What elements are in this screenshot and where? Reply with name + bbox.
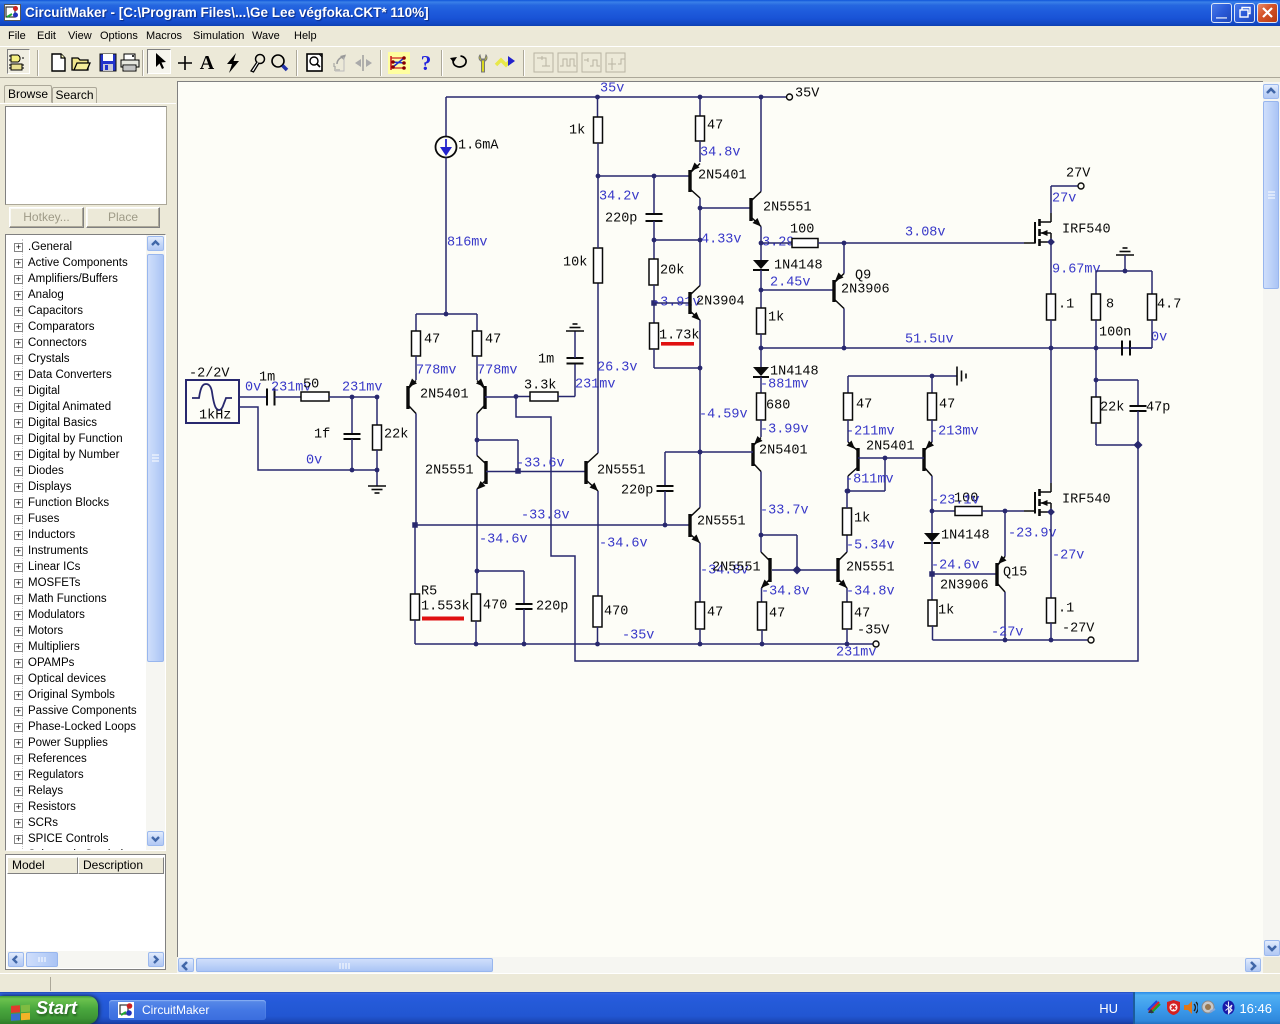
- resistor 47 top right: [698, 95, 703, 100]
- wire current source to diff pair: [445, 158, 447, 315]
- svg-text:1k: 1k: [938, 604, 954, 619]
- svg-text:2N5551: 2N5551: [597, 464, 646, 479]
- wire 8 to output line: [1095, 320, 1097, 348]
- status bar: [0, 973, 1280, 992]
- svg-text:1.553k: 1.553k: [421, 600, 470, 615]
- capacitor 220p across 470: [477, 570, 524, 572]
- resistor .1 upper: [1047, 294, 1056, 320]
- svg-text:34.8v: 34.8v: [700, 146, 741, 161]
- svg-text:47: 47: [769, 607, 785, 622]
- wire 3.91v node to -4.59v node: [699, 368, 701, 452]
- node diff pair tail: [444, 312, 449, 317]
- wire Q11 base: [772, 569, 838, 571]
- red underline 1.73k: [661, 342, 694, 346]
- svg-text:.1: .1: [1058, 602, 1074, 617]
- ground sideways: [956, 367, 958, 386]
- svg-text:816mv: 816mv: [447, 236, 488, 251]
- svg-text:27v: 27v: [1052, 192, 1076, 207]
- transistor Q3 2N5551 mirror left (mirrored): [484, 461, 487, 484]
- svg-text:-34.6v: -34.6v: [599, 537, 648, 552]
- resistor R5 1.553k: [414, 525, 416, 594]
- svg-text:47: 47: [424, 333, 440, 348]
- wire Q1 collector down: [415, 414, 417, 526]
- wire Q6 collector up: [699, 240, 701, 286]
- svg-text:-213mv: -213mv: [930, 425, 979, 440]
- svg-text:-211mv: -211mv: [846, 425, 895, 440]
- transistor Q14 2N5401: [931, 420, 933, 442]
- resistor 470 right: [593, 596, 602, 627]
- terminal 35V: [787, 94, 793, 100]
- resistor 1k Q15: [931, 574, 933, 600]
- svg-text:26.3v: 26.3v: [597, 361, 638, 376]
- svg-text:20k: 20k: [660, 264, 684, 279]
- svg-text:-881mv: -881mv: [760, 378, 809, 393]
- svg-text:22k: 22k: [384, 428, 408, 443]
- svg-text:35v: 35v: [600, 82, 624, 97]
- svg-text:-23.1v: -23.1v: [931, 494, 980, 509]
- svg-text:IRF540: IRF540: [1062, 223, 1111, 238]
- svg-text:2N5551: 2N5551: [697, 515, 746, 530]
- resistor 680: [760, 377, 762, 393]
- svg-text:51.5uv: 51.5uv: [905, 333, 954, 348]
- wire M2 source down: [1050, 512, 1052, 598]
- MOSFET M1 IRF540 upper: [1024, 242, 1035, 244]
- wire Q15 collector down: [1004, 592, 1006, 640]
- svg-text:47: 47: [939, 398, 955, 413]
- svg-text:-33.8v: -33.8v: [521, 509, 570, 524]
- wire Q3 emitter down: [476, 489, 478, 571]
- svg-text:100n: 100n: [1099, 326, 1131, 341]
- svg-text:-23.9v: -23.9v: [1008, 527, 1057, 542]
- svg-text:1kHz: 1kHz: [199, 409, 231, 424]
- wire 100 to M2 gate: [982, 510, 1005, 512]
- diode D3 1N4148: [931, 511, 933, 533]
- wire Q12 emitter down: [846, 588, 848, 602]
- wire output node 51.5uv: [761, 347, 1152, 349]
- svg-text:IRF540: IRF540: [1062, 493, 1111, 508]
- svg-text:9.67mv: 9.67mv: [1052, 263, 1101, 278]
- ground at input: [350, 468, 355, 473]
- svg-text:-34.6v: -34.6v: [479, 533, 528, 548]
- svg-text:-2/2V: -2/2V: [189, 367, 230, 382]
- arrow tool (pressed): [147, 49, 171, 74]
- wire Q15 base: [932, 573, 997, 575]
- transistor Q9 2N3906: [832, 280, 835, 302]
- node 4.33v: [652, 238, 657, 243]
- capacitor C1 1m input coupling: [266, 389, 268, 406]
- ground above load: [1123, 247, 1128, 249]
- capacitor 220p driver: [664, 452, 666, 486]
- svg-text:Q9: Q9: [855, 269, 871, 284]
- svg-text:4.7: 4.7: [1157, 298, 1181, 313]
- browse panel toggle button (pressed): [7, 49, 30, 74]
- transistor Q10 2N5401 driver: [760, 420, 762, 437]
- wire driver base: [665, 451, 753, 453]
- capacitor 1f: [351, 397, 353, 434]
- svg-text:2N5551: 2N5551: [763, 201, 812, 216]
- transistor Q11 2N5551 output left (mirrored): [768, 558, 771, 582]
- resistor 47 mirror right: [931, 376, 933, 393]
- svg-text:231mv: 231mv: [575, 378, 616, 393]
- wire 3.08v to M1 gate: [844, 242, 1024, 244]
- wire Q8 collector up: [699, 452, 701, 508]
- svg-text:1k: 1k: [569, 124, 585, 139]
- resistor .1 lower: [1047, 598, 1056, 623]
- svg-text:.1: .1: [1058, 298, 1074, 313]
- transistor Q4 2N5551 mirror right: [584, 461, 587, 484]
- wire 22k bottom: [1095, 423, 1097, 445]
- wire .1 to output node: [1050, 320, 1052, 348]
- wire 4.7 to 100n: [1151, 320, 1153, 348]
- wire V1 lower pin to ground rail: [239, 407, 377, 470]
- svg-text:47p: 47p: [1146, 401, 1170, 416]
- svg-text:-33.6v: -33.6v: [516, 457, 565, 472]
- svg-text:470: 470: [483, 599, 507, 614]
- svg-text:-34.8v: -34.8v: [761, 585, 810, 600]
- svg-text:2N3904: 2N3904: [696, 295, 745, 310]
- svg-text:27V: 27V: [1066, 167, 1091, 182]
- svg-text:47: 47: [707, 606, 723, 621]
- wire feedback from output: [516, 397, 1138, 662]
- wire base feed to Q5: [598, 175, 690, 177]
- svg-text:778mv: 778mv: [416, 364, 457, 379]
- wire -33.8v base rail: [415, 524, 690, 526]
- resistor 22k input bias: [376, 397, 378, 425]
- svg-text:3.3k: 3.3k: [524, 379, 556, 394]
- red underline R5: [422, 617, 464, 621]
- wire -27V rail: [933, 639, 1090, 641]
- node feedback takeoff: [1095, 348, 1097, 380]
- terminal -35V: [873, 641, 879, 647]
- wire M1 drain to 27V: [1050, 186, 1052, 213]
- resistor 10k: [594, 248, 603, 283]
- wire Q5 collector node: [699, 198, 701, 240]
- svg-text:2.45v: 2.45v: [770, 276, 811, 291]
- wire mirror bases: [858, 457, 924, 459]
- signal generator V1 -2/2V 1kHz: [186, 380, 239, 423]
- wire Q14 collector down: [931, 476, 933, 511]
- node 231mv input junction: [350, 395, 355, 400]
- svg-text:0v: 0v: [1151, 331, 1167, 346]
- svg-text:-34.8v: -34.8v: [846, 585, 895, 600]
- wire V1 to C1: [239, 396, 266, 398]
- transistor Q7 2N5551 VAS: [749, 198, 752, 221]
- svg-text:10k: 10k: [563, 256, 587, 271]
- wire Q4 collector up to 10k: [597, 283, 599, 453]
- transistor Q1 2N5401 diff left: [415, 356, 417, 380]
- resistor 100 gate top: [761, 242, 792, 244]
- terminal -27V: [1088, 637, 1094, 643]
- svg-text:220p: 220p: [621, 484, 653, 499]
- capacitor 1m feedback shunt: [567, 357, 584, 359]
- canvas horizontal scrollbar: [177, 957, 1263, 973]
- node 3.91v: [653, 285, 655, 303]
- wire M2 drain up to output: [1050, 348, 1052, 483]
- svg-text:220p: 220p: [605, 212, 637, 227]
- svg-text:2N5401: 2N5401: [866, 440, 915, 455]
- svg-text:4.33v: 4.33v: [701, 233, 742, 248]
- diode D2 1N4148: [760, 348, 762, 367]
- svg-text:-27V: -27V: [1062, 622, 1095, 637]
- transistor Q8 2N5551: [688, 514, 691, 537]
- svg-text:2N5401: 2N5401: [759, 444, 808, 459]
- svg-text:2N5401: 2N5401: [698, 169, 747, 184]
- wire Q8 emitter down: [699, 543, 701, 602]
- svg-text:3.08v: 3.08v: [905, 226, 946, 241]
- svg-text:47: 47: [707, 119, 723, 134]
- svg-text:R5: R5: [421, 585, 437, 600]
- svg-text:1f: 1f: [314, 428, 330, 443]
- resistor 1.73k: [653, 303, 655, 323]
- wire Q15 emitter up: [1004, 511, 1006, 557]
- svg-text:47: 47: [854, 607, 870, 622]
- capacitor 220p VAS: [653, 176, 655, 214]
- svg-text:Q15: Q15: [1003, 566, 1027, 581]
- svg-text:8: 8: [1106, 298, 1114, 313]
- resistor 3.3k feedback: [516, 396, 530, 398]
- svg-text:47: 47: [856, 398, 872, 413]
- wire Q10 collector down: [760, 472, 762, 536]
- resistor 47 output bias left: [696, 602, 705, 629]
- resistor 1k from 35V: [595, 95, 600, 100]
- resistor 470 left: [476, 571, 478, 594]
- terminal 27V: [1078, 183, 1084, 189]
- svg-text:-35v: -35v: [622, 629, 654, 644]
- wire 1k to output line: [760, 334, 762, 348]
- node feedback input: [514, 394, 519, 399]
- wire 20k to Q6 base: [654, 302, 690, 304]
- transistor Q12 2N5551 output right: [836, 558, 839, 582]
- svg-text:231mv: 231mv: [836, 646, 877, 661]
- svg-text:1m: 1m: [538, 353, 554, 368]
- svg-text:1N4148: 1N4148: [774, 259, 823, 274]
- svg-text:-27v: -27v: [991, 626, 1023, 641]
- svg-text:1.6mA: 1.6mA: [458, 139, 499, 154]
- wire 1k top to mirror node: [846, 491, 848, 508]
- wire R50 to base node: [329, 396, 377, 398]
- svg-text:-33.7v: -33.7v: [760, 504, 809, 519]
- transistor Q15 2N3906: [995, 563, 998, 586]
- wire Q13 diode connection: [847, 476, 849, 491]
- wire D1 to Q9 base node: [760, 270, 762, 290]
- svg-text:35V: 35V: [795, 87, 820, 102]
- svg-text:2N3906: 2N3906: [940, 579, 989, 594]
- svg-text:-4.59v: -4.59v: [699, 408, 748, 423]
- wire Q11 emitter down: [761, 588, 763, 602]
- svg-text:1N4148: 1N4148: [941, 529, 990, 544]
- transistor Q13 2N5401 (mirrored): [847, 420, 849, 442]
- wire D3 to Q15 base node: [931, 541, 933, 574]
- svg-text:2N3906: 2N3906: [841, 283, 890, 298]
- resistor 100 lower gate: [932, 510, 955, 512]
- diode D1 1N4148: [760, 243, 762, 260]
- svg-text:100: 100: [790, 223, 814, 238]
- svg-text:2N5401: 2N5401: [420, 388, 469, 403]
- wire Q6 emitter down: [699, 320, 701, 368]
- capacitor 47p feedback: [1096, 379, 1138, 381]
- wire load top: [1096, 270, 1152, 272]
- wire Q4 emitter down: [597, 491, 599, 596]
- svg-text:?: ?: [421, 52, 432, 74]
- canvas vertical scrollbar: [1263, 82, 1280, 957]
- taskbar: [0, 992, 1280, 1024]
- transistor Q2 2N5401 diff right (mirrored): [476, 356, 478, 380]
- resistor 8 load: [1095, 271, 1097, 294]
- svg-text:220p: 220p: [536, 600, 568, 615]
- svg-text:34.2v: 34.2v: [599, 190, 640, 205]
- wire Q2 collector down: [476, 414, 478, 441]
- wire Q7 collector to rail: [760, 97, 762, 192]
- wire mirror top to ground: [848, 375, 957, 377]
- resistor 47 mirror left: [847, 376, 849, 393]
- resistor 20k: [653, 240, 655, 259]
- wire 35V supply rail: [446, 96, 789, 98]
- wire Q10 to output bases: [761, 534, 797, 536]
- wire mirror base link: [486, 471, 586, 473]
- resistor 22k feedback: [1095, 380, 1097, 397]
- MOSFET M2 IRF540 lower: [1024, 510, 1035, 512]
- svg-text:22k: 22k: [1100, 401, 1124, 416]
- wire 1.73k bottom: [653, 349, 655, 368]
- wire Q7 emitter to bias node: [760, 227, 762, 244]
- resistor 4.7 zobel: [1151, 271, 1153, 294]
- ground above 1m cap: [574, 331, 576, 358]
- wire .1 to -27V rail: [1050, 623, 1052, 640]
- resistor 47 output mid: [758, 602, 767, 630]
- svg-text:1k: 1k: [768, 311, 784, 326]
- resistor 47 diff left: [415, 314, 417, 331]
- transistor Q6 2N3904: [688, 292, 691, 314]
- svg-text:0v: 0v: [306, 454, 322, 469]
- svg-text:-35V: -35V: [857, 624, 890, 639]
- transistor Q5 2N5401: [699, 141, 701, 162]
- capacitor 100n zobel: [1121, 341, 1123, 356]
- wire Q9 emitter up: [843, 243, 845, 274]
- svg-text:0v: 0v: [245, 381, 261, 396]
- svg-text:778mv: 778mv: [477, 364, 518, 379]
- wire 3.3k to C 1m: [558, 396, 575, 398]
- svg-text:231mv: 231mv: [342, 381, 383, 396]
- resistor 47 output right: [843, 602, 852, 629]
- resistor R 50 input: [301, 392, 329, 401]
- wire 1k to 10k node: [597, 143, 599, 176]
- svg-text:A: A: [200, 52, 215, 74]
- wire Q2 collector to mirror: [475, 438, 480, 443]
- resistor 1k pre-driver: [843, 508, 852, 535]
- wire Q9 collector down: [843, 309, 845, 349]
- wire M1 source down: [1050, 242, 1052, 294]
- svg-text:-3.99v: -3.99v: [760, 423, 809, 438]
- svg-text:2N5551: 2N5551: [712, 561, 761, 576]
- svg-text:470: 470: [604, 605, 628, 620]
- wire Q12 collector up to 1k: [846, 535, 848, 552]
- current source I1 1.6mA: [445, 97, 447, 136]
- svg-text:-811mv: -811mv: [845, 473, 894, 488]
- resistor 47 diff right: [476, 314, 478, 331]
- svg-text:-24.6v: -24.6v: [931, 559, 980, 574]
- svg-text:1.73k: 1.73k: [659, 329, 700, 344]
- svg-text:2N5551: 2N5551: [846, 561, 895, 576]
- svg-text:1k: 1k: [854, 512, 870, 527]
- wire Q9 base: [761, 289, 834, 291]
- svg-text:47: 47: [485, 333, 501, 348]
- svg-text:2N5551: 2N5551: [425, 464, 474, 479]
- svg-text:50: 50: [303, 378, 319, 393]
- resistor 1k below Q9 base: [760, 290, 762, 308]
- svg-text:680: 680: [766, 399, 790, 414]
- svg-text:-5.34v: -5.34v: [846, 539, 895, 554]
- wire -35V rail: [415, 643, 873, 645]
- svg-text:-27v: -27v: [1052, 549, 1084, 564]
- wire 100 to gate node: [818, 242, 844, 244]
